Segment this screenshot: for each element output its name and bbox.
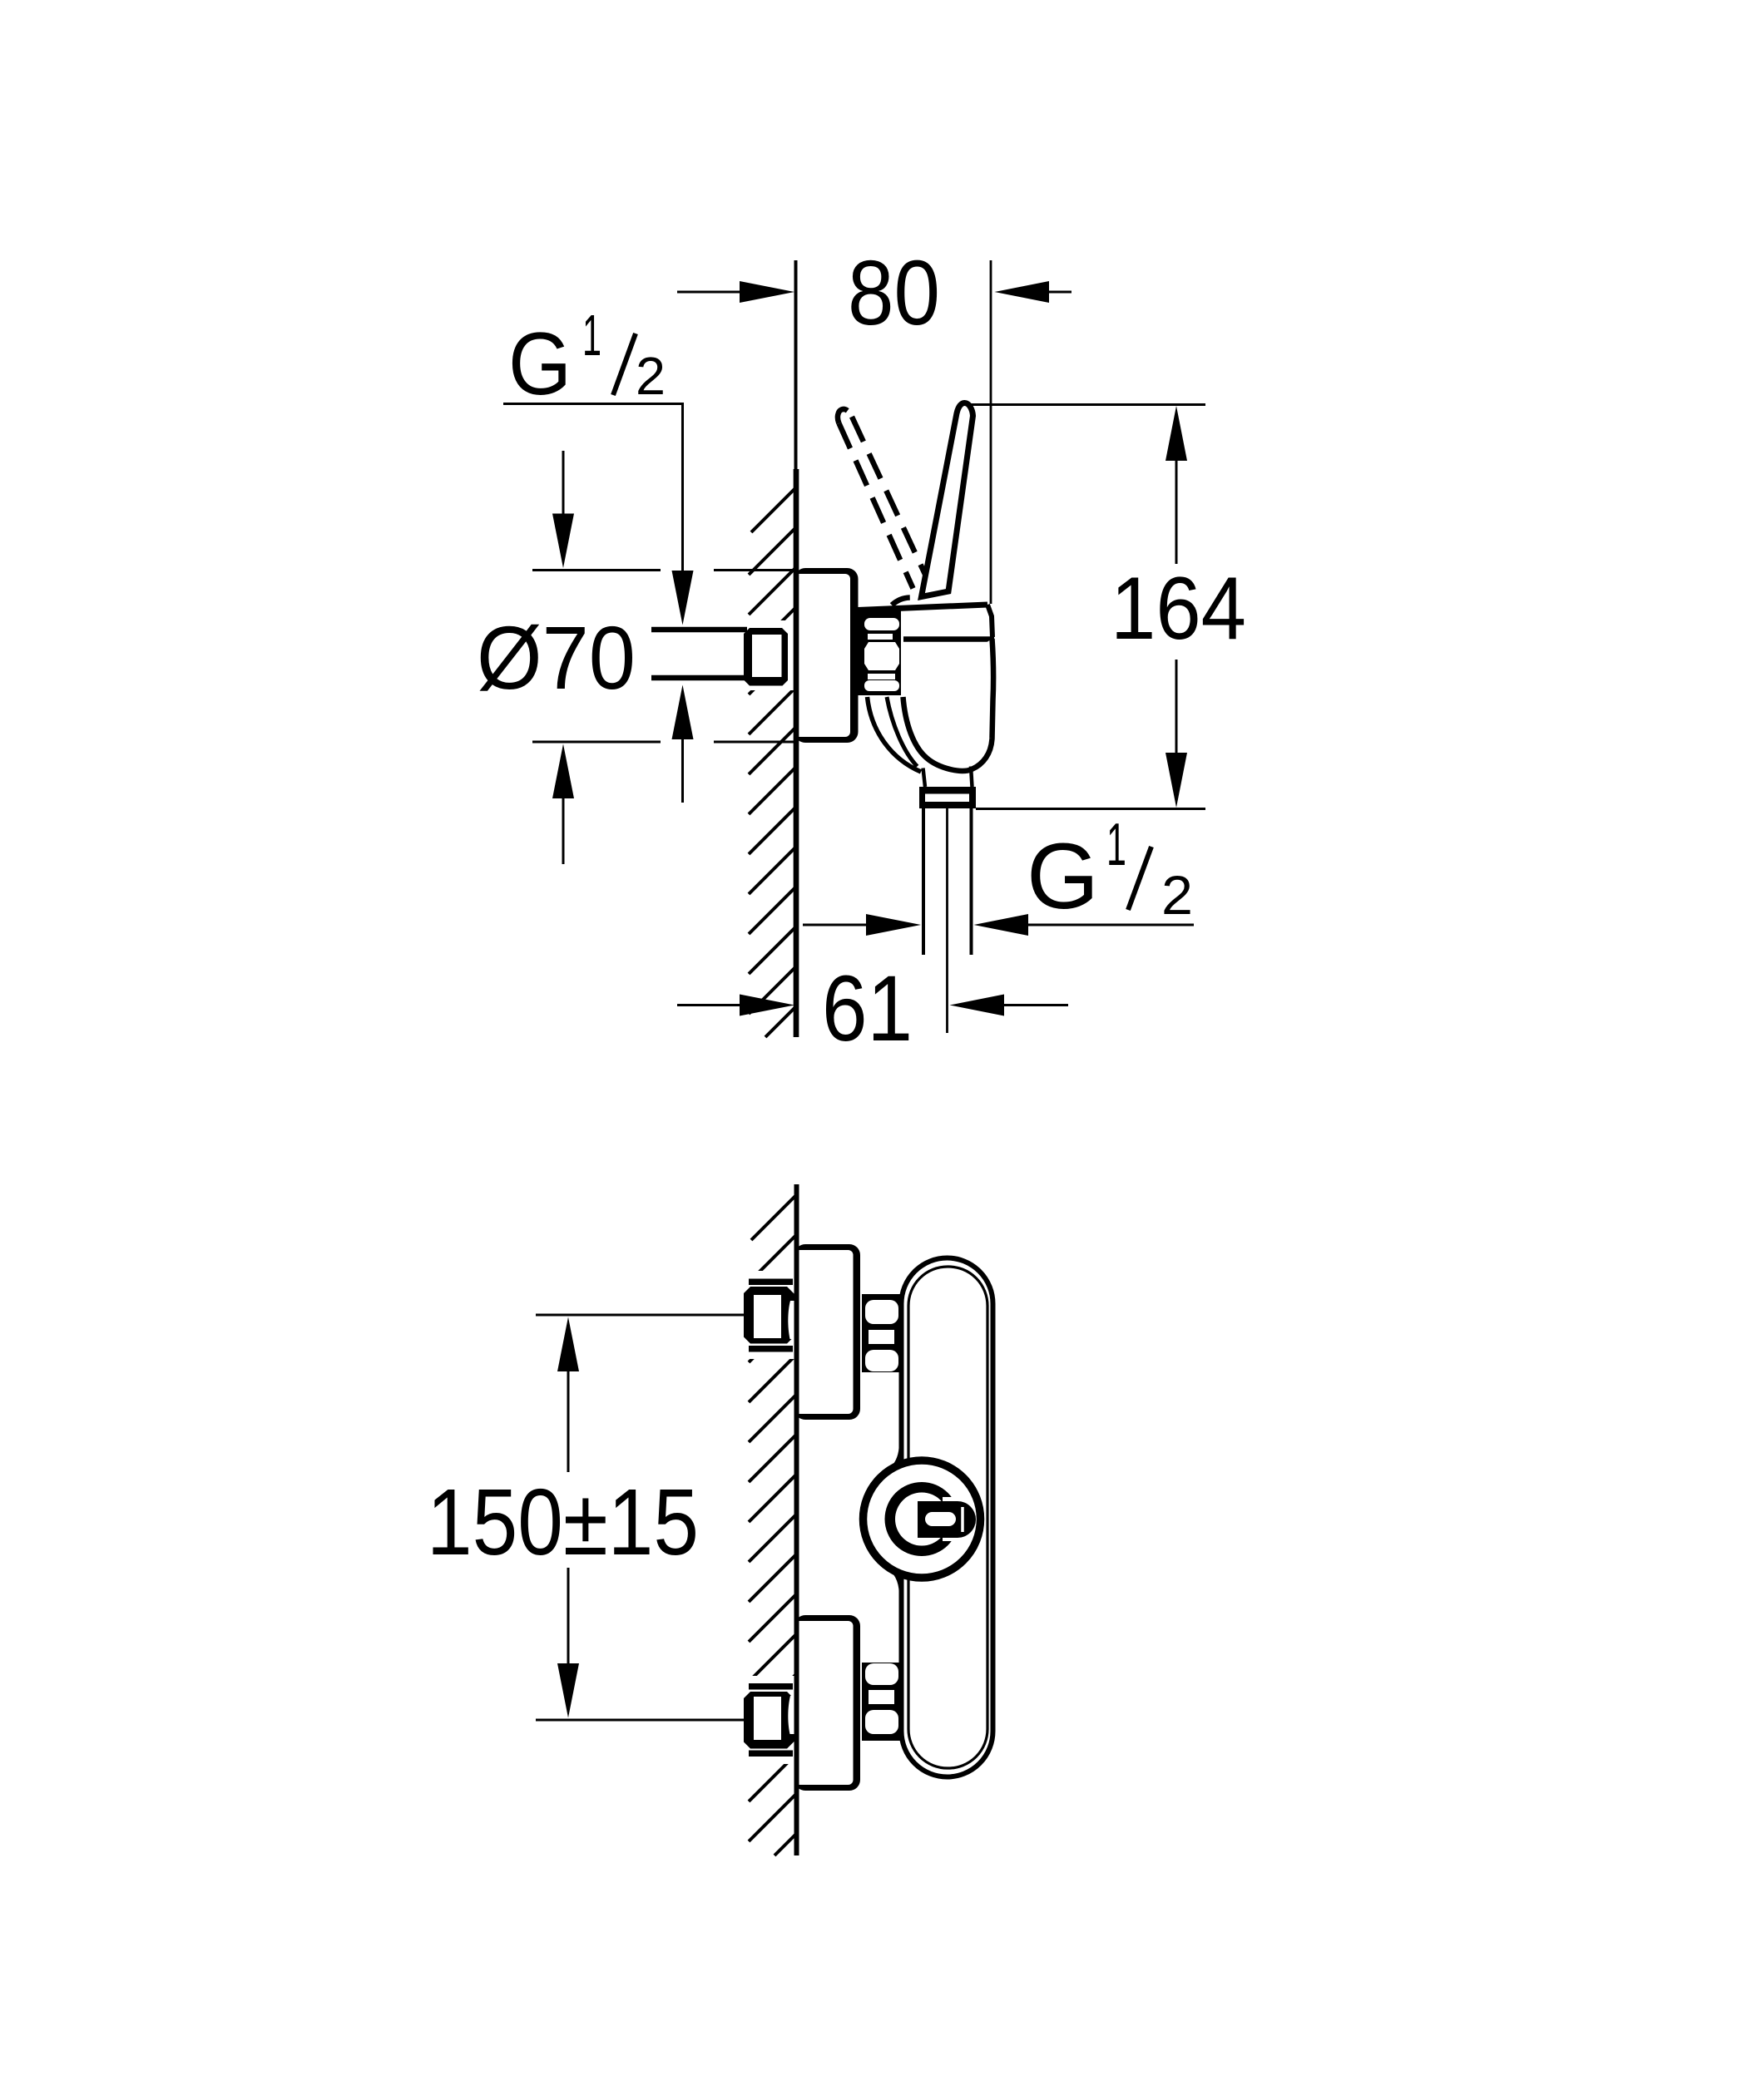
label G 1/2 bottom: fraction slash [1128, 847, 1151, 910]
pipe dia arrow up (below pipe) [672, 685, 694, 740]
dimension 150 extension line bottom [536, 1719, 748, 1722]
dimension 164 arrow down [1166, 660, 1187, 808]
label G 1/2 top: subscript 2 [636, 346, 666, 406]
mixer body outer (front) [902, 1258, 993, 1777]
bottom square union head [744, 1692, 794, 1749]
outlet flange nut (side view) [919, 787, 976, 808]
hose centre extension line [946, 808, 948, 1033]
dia 70 extension line top [532, 569, 796, 571]
white clearance bottom square union [739, 1676, 796, 1764]
top union nut (front) [862, 1294, 903, 1372]
label G 1/2 bottom: superscript 1 [1106, 812, 1126, 878]
wall line (side view) [794, 260, 799, 1037]
body left contour inner (side view) [887, 697, 918, 767]
svg-text:150±15: 150±15 [427, 1470, 699, 1574]
white clearance top square union [739, 1271, 796, 1359]
svg-text:2: 2 [1161, 864, 1193, 926]
cartridge ring (C shape) [885, 1482, 967, 1556]
body left contour outer (side view) [868, 697, 922, 772]
dimension 80 line right [1048, 291, 1071, 294]
bottom escutcheon flange [794, 1615, 860, 1791]
lever handle solid (side view) [922, 403, 973, 596]
label G 1/2 top: fraction slash [613, 334, 636, 395]
dimension 61 arrow left [740, 995, 794, 1016]
supply pipe through wall (white mask) [649, 620, 796, 690]
leader arrow G 1/2 top (down to pipe) [672, 571, 694, 625]
dia 70 arrow down [552, 451, 574, 568]
label G 1/2 top: superscript 1 [582, 303, 601, 368]
dia 70 extension line bottom [532, 741, 796, 744]
dimension 80 text [848, 242, 940, 344]
dia 70 text [477, 607, 636, 708]
bottom union nut (front) [862, 1663, 903, 1741]
square union head (side view) [744, 628, 788, 686]
dia 70 arrow up [552, 744, 574, 865]
svg-text:61: 61 [822, 956, 913, 1060]
top square union collar lip lower [749, 1346, 793, 1352]
dimension 80 arrow right [995, 281, 1050, 303]
extension line lever tip [990, 260, 992, 604]
outlet neck (side view) [923, 767, 973, 788]
svg-text:80: 80 [848, 242, 940, 344]
bottom square union collar lip lower [749, 1751, 793, 1757]
label G 1/2 bottom: G [1027, 824, 1099, 928]
wall hatching (top view) [749, 1195, 796, 1855]
mixer body cup (side view) [903, 639, 994, 771]
lever handle dashed (alternate position) [838, 409, 933, 605]
dimension 61 text [822, 956, 913, 1060]
bottom square union collar lip upper [749, 1683, 793, 1690]
shower hose right edge [970, 808, 973, 955]
dimension 61 line left [677, 1004, 742, 1006]
wall hatching (side view) [749, 487, 796, 1037]
dimension 164 text [1111, 558, 1246, 658]
svg-text:G: G [508, 314, 572, 413]
leader line G 1/2 top [503, 404, 683, 573]
dimension 80 line left [677, 291, 742, 294]
wall line (top view) [794, 1184, 799, 1855]
svg-text:1: 1 [1106, 812, 1126, 878]
top square union collar lip upper [749, 1279, 793, 1286]
svg-text:G: G [1027, 824, 1099, 928]
top square union head [744, 1287, 794, 1344]
knob boss fillet top [893, 1444, 902, 1469]
label G 1/2 top: G [508, 314, 572, 413]
dimension 61 line right [1003, 1004, 1068, 1006]
union nut (side view) [857, 608, 901, 695]
dimension 164 arrow up [1166, 406, 1187, 564]
svg-text:1: 1 [582, 303, 601, 368]
dimension G 1/2 bottom line left [803, 924, 868, 926]
label G 1/2 bottom: subscript 2 [1161, 864, 1193, 926]
mixer body cap (side view) [858, 605, 994, 640]
shower hose left edge [922, 808, 925, 955]
dimension 150 extension line top [536, 1314, 748, 1317]
dimension 164 extension line bottom [976, 808, 1205, 810]
dimension G 1/2 bottom arrow right [974, 914, 1029, 936]
dimension 150 arrow up [557, 1317, 579, 1473]
dimension 150 arrow down [557, 1568, 579, 1718]
lever stub (end-on) [918, 1501, 976, 1538]
svg-text:Ø70: Ø70 [477, 607, 636, 708]
pipe dia arrow shaft below [681, 739, 684, 803]
supply pipe bottom edge [651, 675, 747, 681]
svg-text:164: 164 [1111, 558, 1246, 658]
top escutcheon flange [794, 1244, 860, 1420]
svg-text:2: 2 [636, 346, 666, 406]
dimension 150 text [427, 1470, 699, 1574]
dimension G 1/2 bottom arrow left [866, 914, 921, 936]
supply pipe top edge [651, 627, 747, 633]
mixer body inner rim (front) [908, 1267, 987, 1768]
dimension 80 arrow left [740, 281, 794, 303]
dimension 61 arrow right [950, 995, 1005, 1016]
knob boss fillet bottom [893, 1569, 902, 1594]
dimension G 1/2 bottom line right [1027, 924, 1194, 926]
knob boss circle [864, 1460, 981, 1578]
dimension 164 extension line top [963, 403, 1205, 406]
escutcheon flange (side view) [794, 568, 859, 743]
